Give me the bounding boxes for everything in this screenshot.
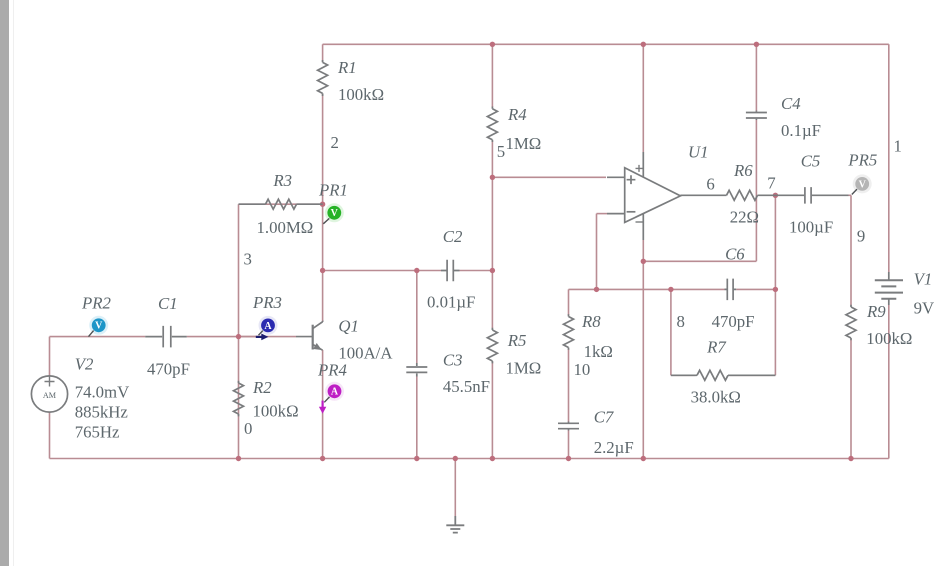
svg-text:PR4: PR4: [317, 361, 348, 380]
capacitor C4: [746, 113, 767, 119]
wire R3 left vertical: [238, 204, 240, 336]
wire C2 row to R5: [491, 271, 493, 329]
wire in+ row: [492, 176, 606, 178]
wire R7 row left: [671, 374, 696, 376]
svg-text:10: 10: [574, 360, 591, 379]
capacitor C5: [805, 187, 811, 204]
resistor R1 leads: [322, 60, 324, 96]
resistor R3: [266, 199, 297, 209]
junction top rail / R4: [490, 42, 495, 47]
svg-text:AM: AM: [43, 391, 57, 400]
svg-text:1: 1: [894, 136, 902, 155]
junction bottom rail / R2: [236, 456, 241, 461]
svg-text:C3: C3: [443, 351, 463, 370]
wire R2 column: [238, 337, 240, 459]
resistor R5 leads: [491, 328, 493, 364]
svg-text:PR2: PR2: [81, 294, 112, 313]
svg-text:8: 8: [677, 312, 685, 331]
wire collector: [322, 271, 324, 323]
junction bottom rail / C7: [566, 456, 571, 461]
svg-text:470pF: 470pF: [712, 312, 755, 331]
wire node 8 row to C6: [671, 288, 725, 290]
svg-text:R7: R7: [706, 338, 726, 357]
svg-text:1MΩ: 1MΩ: [506, 134, 542, 153]
wire C6 to node7 column: [736, 288, 775, 290]
svg-text:R9: R9: [866, 302, 886, 321]
svg-text:1kΩ: 1kΩ: [584, 342, 613, 361]
junction C2 row / C3 column: [414, 268, 419, 273]
wire R5 to bottom: [491, 362, 493, 459]
svg-text:3: 3: [244, 250, 252, 269]
resistor R5: [487, 330, 497, 361]
capacitor C3: [406, 367, 427, 372]
svg-text:2: 2: [331, 133, 339, 152]
ground: [446, 516, 464, 533]
capacitor C2 leads: [441, 270, 460, 272]
svg-text:R5: R5: [507, 331, 527, 350]
junction top rail / opamp V+: [641, 42, 646, 47]
capacitor C1: [163, 326, 171, 348]
capacitor C7: [558, 423, 579, 428]
wire C5 to corner (net 9): [849, 194, 852, 196]
svg-text:100kΩ: 100kΩ: [866, 329, 912, 348]
svg-text:470pF: 470pF: [147, 360, 190, 379]
wire ground stem: [454, 459, 456, 517]
svg-text:R1: R1: [337, 58, 357, 77]
wire node5 to C2 row: [491, 177, 493, 270]
junction bottom rail / emitter: [320, 456, 325, 461]
svg-text:885kHz: 885kHz: [75, 403, 128, 422]
resistor R3 leads: [239, 203, 323, 205]
wire C4 column upper: [755, 44, 757, 110]
wire R1 column lower / node 2: [322, 94, 324, 205]
wire V2 top lead: [49, 337, 51, 376]
wire node 2 to C2 row: [322, 204, 324, 270]
battery V1: [875, 272, 903, 305]
junction node 8 / R7 right: [773, 287, 778, 292]
junction C2 row / collector column: [320, 268, 325, 273]
resistor R9: [846, 307, 856, 338]
capacitor C1 leads: [145, 336, 187, 338]
resistor R2 leads: [238, 381, 240, 417]
svg-text:1MΩ: 1MΩ: [506, 359, 542, 378]
capacitor C4 leads: [755, 111, 757, 121]
resistor R2: [234, 383, 244, 414]
svg-text:V: V: [95, 321, 103, 332]
junction bottom rail / R9: [848, 456, 853, 461]
junction node 3 base row: [236, 334, 241, 339]
svg-text:R6: R6: [733, 161, 753, 180]
resistor R8: [564, 317, 574, 348]
wire opamp V+ pin column: [642, 44, 644, 152]
svg-text:R8: R8: [581, 312, 601, 331]
svg-text:U1: U1: [688, 143, 709, 162]
resistor R1: [318, 62, 328, 93]
wire R4 column top: [491, 44, 493, 107]
svg-text:0: 0: [244, 419, 252, 438]
wire emitter to bottom: [322, 350, 324, 459]
svg-text:9: 9: [857, 226, 865, 245]
wire input row V2 to C1: [50, 336, 146, 338]
svg-text:22Ω: 22Ω: [730, 208, 759, 227]
probe PR5 (voltage): [852, 174, 872, 194]
wire R7 right column: [774, 289, 776, 375]
svg-text:38.0kΩ: 38.0kΩ: [691, 388, 741, 407]
wire node 8 row left: [569, 288, 671, 290]
svg-text:V: V: [859, 179, 867, 190]
probe PR4 (current): [324, 382, 344, 403]
wire R9 column upper: [850, 195, 852, 305]
svg-text:9V: 9V: [914, 298, 935, 317]
wire C2 row right: [460, 270, 493, 272]
svg-text:765Hz: 765Hz: [75, 423, 120, 442]
svg-text:5: 5: [497, 142, 505, 161]
wire R8 to C7: [568, 349, 570, 422]
capacitor C2: [447, 260, 453, 281]
resistor R6 leads: [681, 194, 775, 196]
wire R1 column upper: [322, 44, 324, 62]
wire C2 row left: [323, 270, 441, 272]
svg-text:C6: C6: [725, 245, 745, 264]
svg-text:V1: V1: [914, 270, 933, 289]
wire C7 to bottom: [568, 431, 570, 459]
capacitor C5 leads: [775, 194, 848, 196]
svg-text:R4: R4: [507, 105, 527, 124]
svg-text:A: A: [264, 321, 272, 332]
svg-text:6: 6: [706, 174, 714, 193]
op-amp U1: [607, 152, 682, 240]
wire C1 to node 3 junction: [187, 336, 259, 338]
wire top rail: [323, 43, 889, 45]
AC source V2: [31, 376, 67, 412]
probe PR4 current arrow: [319, 401, 326, 414]
wire R4 to in+ node: [491, 142, 493, 178]
svg-text:Q1: Q1: [338, 317, 359, 336]
svg-text:0.01µF: 0.01µF: [427, 292, 475, 311]
junction bottom rail / C3: [414, 456, 419, 461]
resistor R9 leads: [850, 305, 852, 341]
wire R3 row: [239, 203, 323, 205]
svg-text:V: V: [331, 208, 339, 219]
wire V2 bottom lead: [49, 412, 51, 458]
junction bottom rail / R5: [490, 456, 495, 461]
junction V- row / opamp pin: [641, 259, 646, 264]
junction node 2 / R3 / PR1: [320, 202, 325, 207]
svg-text:C7: C7: [594, 408, 614, 427]
junction node 8 / R7 left: [668, 287, 673, 292]
svg-text:45.5nF: 45.5nF: [443, 377, 490, 396]
wire C3 column lower: [416, 377, 418, 459]
wire right rail lower: [888, 305, 890, 459]
wire opamp V- pin column: [642, 240, 644, 459]
wire V- row to C4 column: [643, 260, 756, 262]
wire base row to Q1: [239, 336, 297, 338]
canvas edge line: [13, 0, 14, 566]
probe PR3 current arrow: [256, 334, 269, 341]
junction bottom rail / opamp V-: [641, 456, 646, 461]
transistor Q1: [296, 322, 323, 350]
probe PR2 (voltage): [89, 316, 109, 337]
junction node 8 / in- drop: [594, 287, 599, 292]
svg-text:2.2µF: 2.2µF: [594, 438, 634, 457]
wire bottom rail: [50, 458, 889, 460]
capacitor C6: [727, 279, 733, 301]
wire R7 row right: [730, 374, 776, 376]
resistor R7 leads: [671, 374, 776, 376]
junction in+ row / R4 column: [490, 175, 495, 180]
resistor R4: [487, 109, 497, 140]
wire C4 column lower: [755, 120, 757, 261]
wire in- drop column: [596, 214, 598, 290]
wire right rail upper (net 1): [888, 44, 890, 272]
resistor R6: [727, 190, 758, 200]
wire in- stub: [597, 213, 608, 215]
resistor R7: [697, 370, 728, 380]
junction top rail / C4: [754, 42, 759, 47]
wire C3 column upper: [416, 271, 418, 364]
svg-text:C1: C1: [158, 294, 178, 313]
svg-text:C2: C2: [443, 227, 463, 246]
wire R7 left column: [670, 289, 672, 375]
svg-text:0.1µF: 0.1µF: [781, 121, 821, 140]
svg-text:PR3: PR3: [252, 293, 282, 312]
resistor R8 leads: [568, 314, 570, 350]
junction C2 row / R5 column: [490, 268, 495, 273]
svg-text:100kΩ: 100kΩ: [253, 402, 299, 421]
svg-text:R3: R3: [272, 171, 292, 190]
probe PR1 (voltage): [323, 203, 344, 224]
svg-text:PR1: PR1: [318, 181, 348, 200]
svg-text:1.00MΩ: 1.00MΩ: [257, 218, 314, 237]
capacitor C7 leads: [568, 422, 570, 431]
left toolbar strip: [0, 0, 9, 566]
resistor R4 leads: [491, 107, 493, 143]
svg-text:V2: V2: [75, 355, 94, 374]
probe PR3 (current): [259, 316, 278, 335]
wire node 7 drop: [774, 195, 776, 289]
svg-text:100kΩ: 100kΩ: [338, 85, 384, 104]
svg-text:A: A: [331, 387, 339, 398]
wire R9 column lower: [850, 340, 852, 459]
capacitor C3 leads: [416, 363, 418, 377]
svg-text:PR5: PR5: [847, 151, 877, 170]
svg-text:C5: C5: [801, 152, 821, 171]
junction bottom rail / ground: [453, 456, 458, 461]
wire R8 column top: [568, 289, 570, 315]
capacitor C6 leads: [725, 288, 737, 290]
svg-text:100µF: 100µF: [789, 217, 833, 236]
junction node 7: [773, 193, 778, 198]
svg-text:74.0mV: 74.0mV: [75, 382, 130, 401]
svg-text:C4: C4: [781, 94, 801, 113]
svg-text:7: 7: [767, 173, 775, 192]
svg-text:R2: R2: [252, 378, 272, 397]
